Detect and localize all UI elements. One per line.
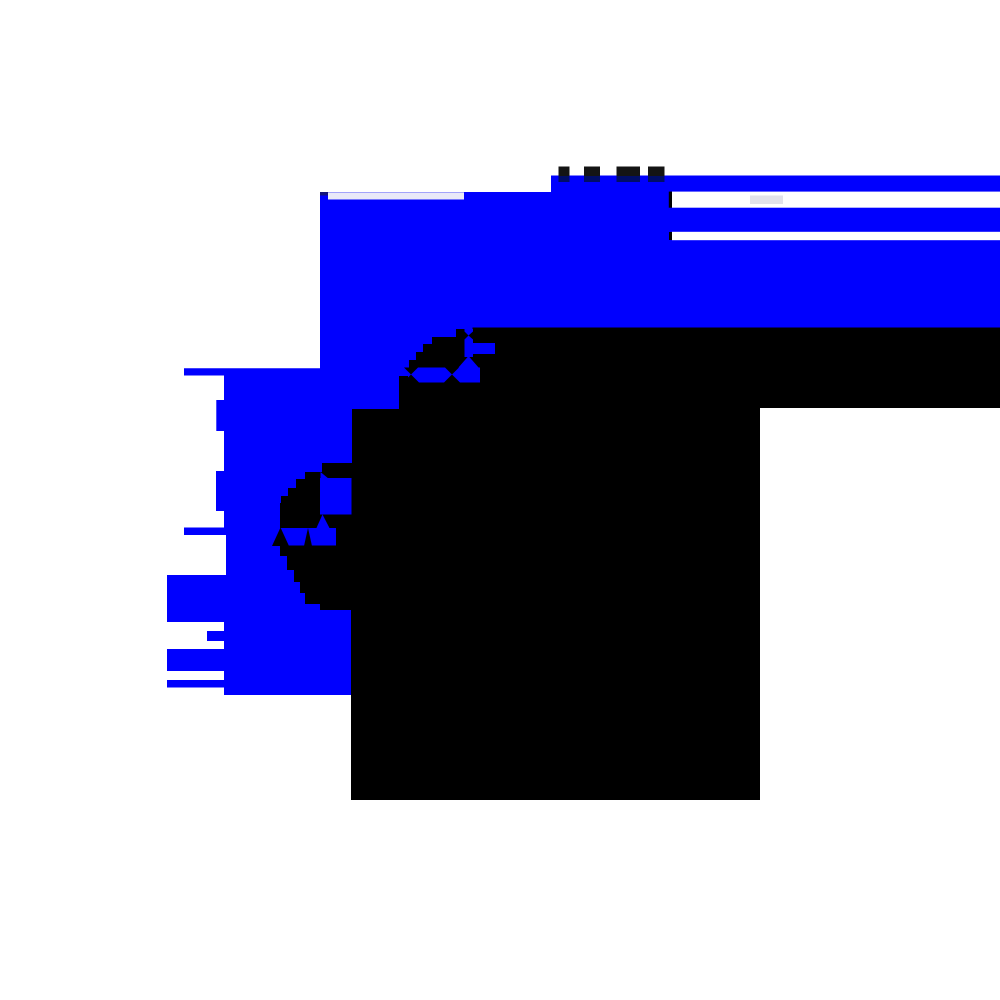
- blue main mass: [167, 176, 1000, 696]
- black big mass: [280, 328, 1000, 801]
- band pinch 1 lower: [403, 375, 419, 383]
- glyph triangle 2: [304, 528, 312, 546]
- black block left of channel: [456, 329, 465, 337]
- band pinch 2 upper: [445, 368, 459, 375]
- band pinch 2 lower: [444, 375, 460, 383]
- corner navy pixel: [320, 192, 328, 196]
- channel pinch black left: [465, 332, 469, 340]
- blue square island: [320, 478, 352, 515]
- blue channel: [465, 329, 474, 357]
- lavender strip: [328, 192, 464, 199]
- blue bar: [469, 343, 495, 354]
- faint gray mark: [750, 196, 783, 205]
- channel pinch black right: [469, 332, 474, 340]
- blue glyph row: [270, 528, 336, 546]
- blue band: [408, 368, 480, 383]
- square top funnel: [321, 472, 330, 479]
- letter smudges: [559, 176, 570, 182]
- band pinch 1 upper: [404, 368, 418, 375]
- glyph triangle 1: [272, 528, 289, 547]
- white stripe 2: [672, 232, 1000, 240]
- white stripe 1: [672, 192, 1000, 208]
- top letters: [559, 167, 570, 177]
- stripe 1 black sliver: [669, 192, 672, 208]
- square bottom funnel: [316, 515, 330, 530]
- stripe 2 black sliver: [669, 232, 672, 240]
- channel lower funnel: [458, 356, 479, 368]
- black bridge right of channel: [473, 328, 479, 338]
